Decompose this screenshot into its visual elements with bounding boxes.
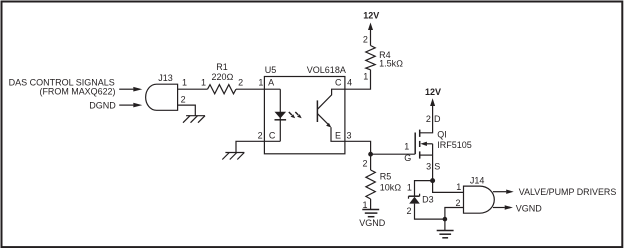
svg-text:C: C bbox=[335, 78, 342, 88]
LED (U5 emitter diode) bbox=[275, 89, 287, 141]
svg-text:VALVE/PUMP DRIVERS: VALVE/PUMP DRIVERS bbox=[519, 187, 617, 197]
svg-text:1: 1 bbox=[201, 78, 206, 88]
svg-text:1: 1 bbox=[404, 142, 409, 152]
svg-text:2: 2 bbox=[363, 35, 368, 45]
svg-text:G: G bbox=[404, 153, 411, 163]
chassis ground bbox=[222, 153, 244, 160]
svg-text:QI: QI bbox=[437, 130, 447, 140]
svg-text:2: 2 bbox=[181, 95, 186, 105]
svg-text:VGND: VGND bbox=[516, 204, 543, 214]
svg-text:1.5kΩ: 1.5kΩ bbox=[379, 59, 403, 69]
transistor Q1 IRF5105 (p-channel MOSFET) bbox=[404, 114, 472, 171]
svg-text:C: C bbox=[269, 131, 276, 141]
resistor R1 220 ohm bbox=[201, 62, 243, 94]
ground (3-bar) bbox=[437, 219, 454, 238]
ground VGND bbox=[359, 210, 386, 229]
connector J14 bbox=[456, 175, 495, 213]
svg-text:3: 3 bbox=[347, 130, 352, 140]
svg-text:2: 2 bbox=[426, 114, 431, 124]
svg-text:2: 2 bbox=[407, 206, 412, 216]
svg-text:2: 2 bbox=[363, 159, 368, 169]
input arrow (DAS control signals) bbox=[119, 87, 142, 92]
wire S node to J14 pin1 bbox=[433, 181, 464, 193]
svg-text:1: 1 bbox=[363, 72, 368, 82]
svg-text:1: 1 bbox=[456, 182, 461, 192]
svg-text:E: E bbox=[335, 130, 341, 140]
wire J13 pin1 to R1 bbox=[178, 88, 208, 90]
svg-text:VGND: VGND bbox=[359, 218, 386, 228]
svg-text:12V: 12V bbox=[425, 87, 441, 97]
wire D3 anode to ground node bbox=[415, 204, 445, 220]
wire Q1 source down to S node bbox=[432, 144, 434, 181]
net label: DAS CONTROL SIGNALS (FROM MAXQ622) bbox=[9, 77, 116, 96]
output arrow (VALVE/PUMP DRIVERS) bbox=[493, 187, 616, 197]
output arrow (VGND) bbox=[493, 204, 542, 214]
input arrow (DGND) bbox=[119, 103, 142, 108]
svg-text:(FROM MAXQ622): (FROM MAXQ622) bbox=[40, 87, 116, 97]
svg-text:1: 1 bbox=[258, 78, 263, 88]
wire J14 pin2 to ground node bbox=[445, 208, 464, 220]
wire J13 pin2 to chassis ground bbox=[178, 105, 196, 116]
svg-text:A: A bbox=[268, 78, 274, 88]
svg-text:DGND: DGND bbox=[89, 100, 116, 110]
svg-text:IRF5105: IRF5105 bbox=[437, 140, 472, 150]
svg-text:4: 4 bbox=[347, 78, 352, 88]
wire U5 pin2 (cathode) to chassis ground bbox=[236, 141, 280, 152]
chassis ground (DGND) bbox=[183, 116, 205, 123]
resistor R5 10k bbox=[363, 154, 402, 210]
svg-text:D3: D3 bbox=[422, 195, 434, 205]
node S (source junction) bbox=[430, 178, 435, 183]
node (gate node junction) bbox=[368, 152, 373, 157]
svg-text:3: 3 bbox=[426, 161, 431, 171]
node (ground junction) bbox=[443, 217, 448, 222]
svg-text:D: D bbox=[434, 114, 441, 124]
svg-text:R5: R5 bbox=[380, 172, 392, 182]
svg-text:12V: 12V bbox=[363, 11, 379, 21]
resistor R4 1.5k bbox=[363, 35, 403, 82]
wire U5 pin4 (collector) up to R4 bbox=[345, 70, 371, 89]
svg-text:1: 1 bbox=[182, 78, 187, 88]
wire R1 to U5 pin1 (anode) bbox=[236, 88, 280, 90]
phototransistor (U5 detector) bbox=[317, 89, 345, 141]
power 12V (Q1 drain) bbox=[425, 87, 441, 106]
wire 12V to Q1 drain bbox=[420, 106, 433, 133]
diode D3 (zener) bbox=[407, 183, 434, 217]
svg-text:1: 1 bbox=[363, 200, 368, 210]
svg-text:2: 2 bbox=[258, 131, 263, 141]
svg-text:2: 2 bbox=[456, 198, 461, 208]
svg-text:R1: R1 bbox=[216, 62, 228, 72]
svg-text:1: 1 bbox=[407, 183, 412, 193]
light arrows (LED emission) bbox=[289, 112, 302, 118]
svg-text:VOL618A: VOL618A bbox=[307, 65, 346, 75]
connector J13 bbox=[146, 73, 187, 110]
wire gate node to Q1 gate bbox=[371, 153, 415, 155]
svg-text:2: 2 bbox=[238, 78, 243, 88]
svg-text:S: S bbox=[434, 161, 440, 171]
svg-text:220Ω: 220Ω bbox=[212, 72, 234, 82]
wire S node to D3 cathode bbox=[415, 181, 433, 197]
svg-text:10kΩ: 10kΩ bbox=[380, 183, 402, 193]
wire U5 pin3 (emitter) to gate node bbox=[345, 141, 371, 154]
svg-text:J14: J14 bbox=[470, 175, 485, 185]
optocoupler U5 VOL618A bbox=[258, 65, 353, 154]
power 12V (R4) bbox=[363, 11, 379, 46]
svg-text:J13: J13 bbox=[158, 73, 173, 83]
svg-text:U5: U5 bbox=[265, 65, 277, 75]
